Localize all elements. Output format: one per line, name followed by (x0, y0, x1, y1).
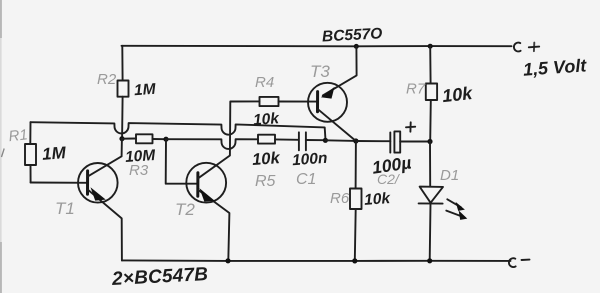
node A (R2/T1 collector/R3 junction) (119, 136, 124, 141)
svg-text:T1: T1 (55, 199, 75, 218)
capacitor C1 (299, 132, 325, 150)
wire 2 middle segment (node B to R5, hop over T2 collector line) (166, 139, 258, 149)
resistor R7 (426, 46, 437, 141)
node D1 / ground junction (427, 258, 432, 263)
svg-text:10k: 10k (364, 190, 392, 209)
node B (R3/T2 base junction) (163, 137, 168, 142)
svg-text:T3: T3 (310, 62, 330, 81)
svg-text:10k: 10k (441, 83, 474, 106)
wire top supply rail (122, 45, 512, 48)
terminal - (509, 258, 530, 267)
node T2 emitter / ground junction (225, 258, 230, 263)
svg-text:R5: R5 (255, 173, 276, 190)
resistor R5 (258, 135, 298, 144)
terminal + (514, 43, 539, 52)
resistor R4 (260, 97, 318, 106)
node top rail / R7 junction (428, 44, 433, 49)
transistor T3 (308, 46, 357, 141)
wire node C to node D (325, 139, 355, 142)
transistor T2 (186, 101, 259, 260)
svg-text:T2: T2 (175, 200, 195, 219)
wire 2 left segment (node A to R3) (122, 138, 136, 140)
svg-text:BC557O: BC557O (322, 25, 383, 45)
resistor R3 (136, 134, 166, 143)
node D (T3 collector/R6/C2 junction) (353, 138, 358, 143)
svg-text:10k: 10k (253, 110, 281, 129)
node E (C2/R7/D1 junction) (427, 139, 432, 144)
svg-text:R7: R7 (406, 81, 426, 98)
svg-text:1M: 1M (41, 143, 67, 164)
node C (wire1/C1/T3 collector node) (323, 138, 328, 143)
LED D1 (419, 142, 468, 261)
wire bottom ground rail (122, 259, 511, 262)
transistor T1 (78, 139, 122, 261)
svg-text:D1: D1 (440, 167, 459, 184)
svg-text:C2/: C2/ (377, 171, 401, 187)
svg-text:1M: 1M (134, 81, 158, 100)
wire R1 bottom to T1 base (31, 182, 87, 184)
resistor R2 (118, 46, 129, 136)
wire 1 (R1 top to C1 node, with two hops) (31, 122, 326, 138)
capacitor C2 (356, 122, 430, 152)
svg-text:C1: C1 (296, 171, 316, 188)
svg-text:R2: R2 (97, 71, 117, 88)
resistor R1 (25, 122, 36, 182)
node R6 / ground junction (352, 258, 357, 263)
scan edge artifact left (0, 0, 4, 293)
wire T2 base connection (166, 139, 198, 184)
svg-text:R4: R4 (255, 74, 274, 91)
resistor R6 (350, 141, 362, 261)
svg-text:R3: R3 (129, 162, 149, 179)
svg-text:100n: 100n (292, 150, 328, 169)
svg-text:R6: R6 (330, 190, 350, 207)
svg-text:R1: R1 (8, 126, 29, 145)
svg-text:10k: 10k (252, 149, 282, 169)
node top rail / T3 emitter junction (354, 44, 359, 49)
